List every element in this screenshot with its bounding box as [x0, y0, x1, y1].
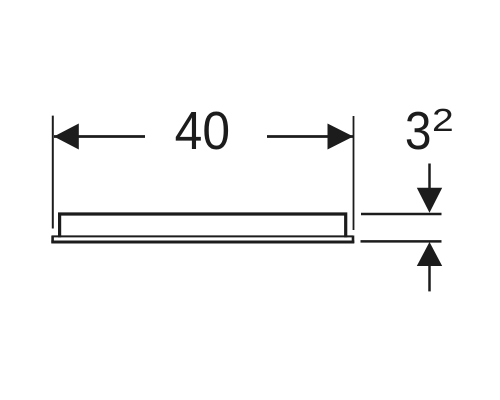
extension line right (width dim): [353, 116, 355, 230]
extension line lower (height dim): [361, 240, 442, 243]
profile: base plate left edge: [51, 236, 54, 243]
extension line left (width dim): [52, 116, 54, 229]
height dim leader below: [428, 264, 431, 291]
svg-text:2: 2: [432, 102, 454, 138]
profile: mirror body top/side outline: [60, 214, 346, 238]
dimension line left segment: [54, 135, 145, 138]
arrowhead down: [417, 188, 442, 213]
arrowhead up: [417, 242, 442, 266]
arrowhead right: [328, 124, 354, 150]
extension line upper (height dim): [361, 213, 442, 216]
profile: base plate right edge: [352, 236, 355, 244]
height dim leader above: [428, 164, 431, 191]
profile: base plate bottom edge: [51, 240, 354, 243]
profile: thin bottom line of mirror body / plate top: [52, 235, 353, 237]
svg-text:40: 40: [175, 101, 230, 161]
arrowhead left: [54, 124, 79, 150]
svg-text:3: 3: [405, 101, 432, 161]
dimension line right segment: [267, 135, 353, 138]
